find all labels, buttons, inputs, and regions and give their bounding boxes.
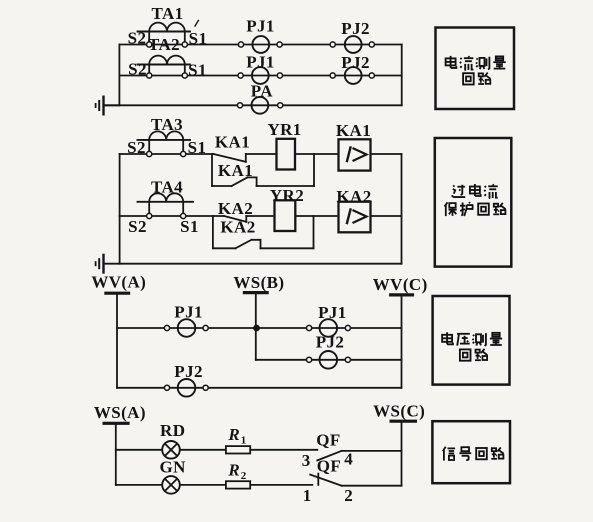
wire right bus (section 2) <box>401 154 403 264</box>
ground (section 2) <box>96 254 104 274</box>
wire KA1 branch <box>212 185 232 187</box>
svg-text:KA2: KA2 <box>336 187 371 206</box>
label text: current measurement circuit (box 1) <box>446 56 506 85</box>
box: signal circuit <box>432 421 510 483</box>
wire contact to YR1 <box>246 153 277 155</box>
box: overcurrent protection circuit <box>435 138 512 267</box>
svg-text:PJ2: PJ2 <box>341 19 370 38</box>
svg-text:2: 2 <box>344 486 353 505</box>
node junction WS(B)/row1 <box>254 326 259 331</box>
svg-text:TA3: TA3 <box>151 115 183 134</box>
svg-text:1: 1 <box>241 435 247 447</box>
svg-text:WS(B): WS(B) <box>233 273 284 292</box>
ammeter PA <box>237 97 282 114</box>
meter PJ2 (voltage, left) <box>164 379 208 397</box>
svg-text:KA1: KA1 <box>215 133 250 152</box>
current transformer TA1 <box>138 23 191 48</box>
svg-text:PJ2: PJ2 <box>174 362 203 381</box>
lamp RD <box>162 441 180 459</box>
svg-text:PJ1: PJ1 <box>174 303 203 322</box>
svg-text:WS(A): WS(A) <box>94 403 146 422</box>
wire bottom return <box>104 263 402 265</box>
resistor R1 <box>226 446 250 453</box>
svg-text:WS(C): WS(C) <box>373 402 425 421</box>
wire KA1 relay to right bus <box>371 153 402 155</box>
current transformer TA3 <box>138 131 191 156</box>
meter PJ1 (voltage, left) <box>164 319 208 337</box>
wire voltage row 2 <box>256 359 402 361</box>
wire voltage row 1 <box>117 327 402 329</box>
overcurrent relay KA2 <box>339 202 371 233</box>
trip coil YR2 <box>275 200 296 231</box>
svg-text:R: R <box>227 461 239 480</box>
wire KA1 branch to rejoin <box>257 185 314 187</box>
svg-text:S1: S1 <box>188 138 207 157</box>
label text: overcurrent protection circuit (box 2) <box>445 184 506 216</box>
wire left bus (section 1) <box>118 45 120 106</box>
wire TA3 row <box>120 153 214 155</box>
busbar WS(A) <box>104 423 128 485</box>
wire KA2 branch <box>213 247 236 249</box>
wire signal row 1 <box>116 449 317 451</box>
svg-text:PJ2: PJ2 <box>316 333 345 352</box>
box: voltage measurement circuit <box>433 296 510 385</box>
svg-text:KA2: KA2 <box>220 218 255 237</box>
svg-text:S2: S2 <box>128 217 147 236</box>
svg-text:YR2: YR2 <box>270 186 304 205</box>
wire row 2 <box>119 75 401 77</box>
wire TA4 row <box>120 215 224 217</box>
svg-text:4: 4 <box>344 450 353 469</box>
meter PJ2 row1 <box>330 36 374 53</box>
breaker contact QF 3-4 <box>317 451 401 461</box>
svg-text:KA1: KA1 <box>218 161 253 180</box>
lamp GN <box>162 476 180 494</box>
overcurrent relay KA1 <box>339 139 371 170</box>
label text: signal circuit (box 4) <box>443 447 504 461</box>
wire voltage row 3 <box>117 387 402 389</box>
svg-text:KA1: KA1 <box>336 121 371 140</box>
contact KA2 (upper) <box>224 216 246 222</box>
busbar WV(A) <box>106 293 129 388</box>
resistor R2 <box>226 481 250 488</box>
svg-text:S2: S2 <box>128 60 147 79</box>
svg-text:WV(C): WV(C) <box>373 275 428 294</box>
contact KA1 (upper) <box>214 154 246 162</box>
meter PJ2 (voltage, right) <box>307 351 351 369</box>
svg-text:PJ2: PJ2 <box>341 53 370 72</box>
svg-text:PJ1: PJ1 <box>246 17 275 36</box>
svg-text:YR1: YR1 <box>267 120 301 139</box>
svg-text:S2: S2 <box>127 138 146 157</box>
svg-text:WV(A): WV(A) <box>91 273 146 292</box>
ground (section 1) <box>96 96 104 116</box>
wire KA1 branch up <box>313 154 315 186</box>
wire ground to left bus <box>104 104 120 106</box>
svg-text:1: 1 <box>303 486 312 505</box>
wire left bus (section 2) <box>119 154 121 264</box>
svg-text:3: 3 <box>302 451 311 470</box>
meter PJ1 (voltage, right) <box>307 319 351 337</box>
svg-text:S1: S1 <box>188 61 207 80</box>
svg-text:TA2: TA2 <box>148 35 180 54</box>
breaker contact QF 1-2 <box>310 474 401 486</box>
svg-text:RD: RD <box>160 421 185 440</box>
label text: voltage measurement circuit (box 3) <box>442 332 502 360</box>
svg-text:GN: GN <box>160 458 187 477</box>
busbar WS(B) <box>244 293 267 360</box>
wire KA2 relay to right bus <box>371 215 402 217</box>
svg-text:S1: S1 <box>180 217 199 236</box>
wire YR2 to KA2 relay <box>295 215 338 217</box>
trip coil YR1 <box>277 139 296 170</box>
busbar WS(C) <box>391 421 415 486</box>
wire KA2 branch down <box>212 216 214 248</box>
svg-text:KA2: KA2 <box>218 199 253 218</box>
current arrow mark i <box>195 21 198 27</box>
wire KA1 branch down <box>211 154 213 186</box>
wire signal row 2 <box>116 484 312 486</box>
wire YR1 to KA1 relay <box>295 153 339 155</box>
svg-text:2: 2 <box>241 470 247 482</box>
wire row 1 <box>119 44 401 46</box>
meter PJ1 row1 <box>238 36 282 53</box>
svg-text:QF: QF <box>317 457 341 476</box>
contact KA1 (lower, with hook) <box>232 177 257 186</box>
wire KA2 branch up <box>313 216 315 248</box>
svg-text:TA4: TA4 <box>151 178 183 197</box>
svg-text:PA: PA <box>251 82 274 101</box>
svg-text:R: R <box>227 425 239 444</box>
box: current measurement circuit <box>436 28 515 110</box>
wire contact to YR2 <box>246 215 274 217</box>
svg-text:S1: S1 <box>189 29 208 48</box>
meter PJ2 row2 <box>330 67 374 84</box>
svg-text:PJ1: PJ1 <box>246 53 275 72</box>
wire KA2 branch to rejoin <box>261 247 314 249</box>
svg-text:TA1: TA1 <box>151 4 183 23</box>
wire right bus (section 1) <box>401 45 403 106</box>
contact KA2 (lower, with hook) <box>236 240 261 249</box>
current transformer TA4 <box>138 193 194 218</box>
svg-text:PJ1: PJ1 <box>318 303 347 322</box>
busbar WV(C) <box>391 295 413 388</box>
meter PJ1 row2 <box>238 67 283 84</box>
current transformer TA2 <box>138 56 191 78</box>
wire row 3 <box>104 104 402 106</box>
svg-text:QF: QF <box>316 431 340 450</box>
svg-text:S2: S2 <box>128 29 147 48</box>
